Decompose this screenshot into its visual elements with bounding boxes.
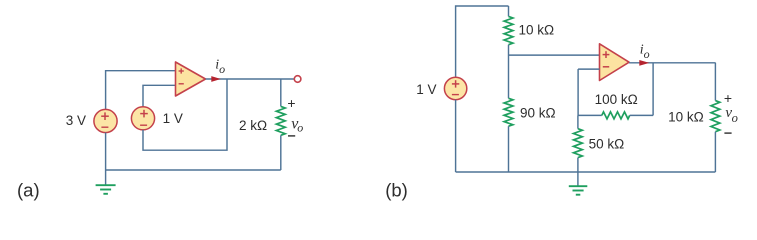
resistor 10 kOhm (load) [711,101,720,132]
svg-text:10 kΩ: 10 kΩ [668,109,704,124]
svg-text:1 V: 1 V [416,82,436,97]
svg-text:3 V: 3 V [66,113,86,128]
current arrow io (b) [639,60,649,66]
wire chain top to 10k [508,6,510,16]
bottom rail wire (b) [456,171,716,173]
wire 50k bottom to bottom rail [577,158,579,172]
feedback right vertical wire [652,63,654,116]
feedback horizontal wire left segment [578,114,602,116]
ground (b) [569,172,588,195]
wire 10k bottom through node to 90k top [508,45,510,99]
svg-text:(b): (b) [385,179,408,200]
voltage source 1V (b) [444,77,466,99]
output wire of U1 [206,78,295,80]
current arrow io (a) [211,76,221,82]
svg-text:90 kΩ: 90 kΩ [520,105,556,120]
output wire of U2 [629,62,716,64]
op-amp U1 [176,62,206,96]
voltage source 3V [94,109,117,132]
bottom rail wire (a) [106,169,281,171]
feedback horizontal wire right segment [630,114,653,116]
wire 1V top up and right to resistor chain [456,6,509,78]
svg-text:(a): (a) [17,179,40,200]
feedback left vertical wire [577,69,579,115]
svg-text:+: + [724,90,732,106]
ground (a) [96,170,116,194]
svg-text:50 kΩ: 50 kΩ [589,137,625,152]
svg-text:10 kΩ: 10 kΩ [518,22,554,37]
resistor 50 kOhm [574,129,583,158]
inverting input stub wire [578,68,599,70]
wire 2k resistor bottom to ground rail [280,135,282,170]
wire 3V source bottom to ground rail [105,133,107,170]
svg-text:+: + [287,95,295,111]
output terminal (red open circle) [294,76,301,83]
voltage source 1V (a) [131,107,154,130]
wire 90k bottom to bottom rail [508,126,510,172]
svg-text:2 kΩ: 2 kΩ [239,118,267,133]
wire output corner down to load resistor [714,63,716,101]
svg-text:100 kΩ: 100 kΩ [595,92,638,107]
wire from output node down to 2k resistor [280,79,282,106]
op-amp U2 [600,44,630,81]
wire 1V bottom to bottom rail [455,100,457,172]
wire node to op-amp noninverting input [509,54,600,56]
feedback wire: output down and left to 1V source bottom [143,79,227,150]
svg-text:1 V: 1 V [163,111,183,126]
wire from 3V source top to op-amp noninverting input [106,71,176,110]
wire feedback node down to 50k [577,115,579,128]
resistor 2 kOhm [276,106,285,135]
resistor 10 kOhm (top) [504,16,513,44]
wire load bottom to bottom rail [714,132,716,172]
wire from 1V source top to op-amp inverting input [143,85,176,107]
resistor 90 kOhm [504,98,513,126]
resistor 100 kOhm [602,112,630,119]
